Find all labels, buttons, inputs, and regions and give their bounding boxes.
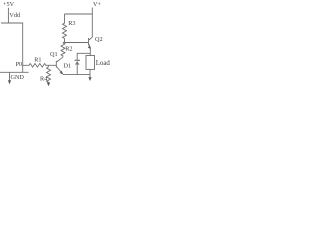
svg-text:Load: Load [96,60,111,67]
svg-text:R2: R2 [65,46,72,53]
svg-text:R3: R3 [68,20,75,27]
svg-text:GND: GND [11,74,25,81]
svg-text:Q1: Q1 [50,51,58,58]
svg-text:P0: P0 [16,61,23,68]
svg-text:Vdd: Vdd [9,12,21,19]
svg-text:R4: R4 [40,75,47,82]
svg-text:Q2: Q2 [95,36,103,43]
svg-text:D1: D1 [64,62,72,69]
svg-text:R1: R1 [34,56,41,63]
svg-text:V+: V+ [93,1,101,8]
svg-text:+5V: +5V [3,1,15,8]
